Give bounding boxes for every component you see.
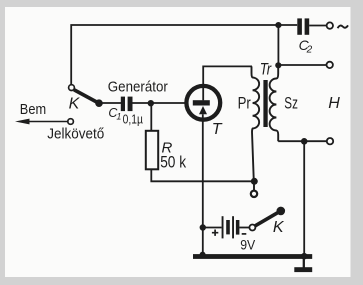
switch K (power) lever arm <box>255 211 280 226</box>
svg-text:Sz: Sz <box>284 95 298 113</box>
ground symbol bar <box>294 267 312 272</box>
terminal circle bottom <box>327 138 333 144</box>
svg-text:0,1µ: 0,1µ <box>123 113 143 127</box>
capacitor C2 left plate <box>297 18 302 34</box>
svg-text:Tr: Tr <box>260 61 273 79</box>
wire resistor bottom to bias rail <box>151 169 254 181</box>
terminal circle top (AC out) <box>327 22 333 28</box>
switch K lever arm <box>74 90 99 103</box>
battery 9V plate thin long 1 <box>222 216 224 238</box>
stub from bias node to open contact <box>253 184 255 191</box>
wire secondary net down to ground bus <box>303 141 305 254</box>
svg-text:1: 1 <box>116 111 121 121</box>
svg-text:50 k: 50 k <box>160 153 186 172</box>
Bem arrowhead <box>15 119 30 125</box>
svg-text:Generátor: Generátor <box>108 78 168 95</box>
transformer Tr secondary winding Sz <box>270 66 279 141</box>
transistor T base bar <box>193 100 210 105</box>
junction dot switch K output node <box>95 99 103 107</box>
wire to mid terminal <box>278 64 326 66</box>
Jelköveto contact circle <box>68 119 74 125</box>
wire battery right lead <box>239 227 249 229</box>
terminal circle mid <box>327 62 333 68</box>
capacitor C2 right plate <box>305 18 310 34</box>
capacitor C1 left plate <box>121 97 125 112</box>
wire base node down to resistor R <box>150 103 152 131</box>
switch K (power) lever tip blob <box>277 207 286 216</box>
transistor T emitter arrow <box>199 106 207 114</box>
svg-text:9V: 9V <box>240 238 255 253</box>
junction blob emitter-battery at bus <box>200 252 206 258</box>
wire C1 to base node <box>133 102 187 104</box>
transformer Tr core bar <box>263 80 267 127</box>
transformer Tr primary winding Pr <box>252 66 260 181</box>
wire secondary top tap vertical <box>277 25 279 65</box>
battery 9V plate thick short 1 <box>226 220 230 234</box>
capacitor C1 right plate <box>128 97 133 112</box>
junction dot battery tap on emitter line <box>200 224 206 230</box>
switch K upper contact circle <box>69 85 75 91</box>
svg-text:K: K <box>273 219 285 236</box>
wire collector from base bar up and over to primary <box>203 66 252 100</box>
battery minus sign <box>242 233 247 235</box>
svg-text:2: 2 <box>306 44 313 55</box>
label ~ (AC) <box>338 25 348 28</box>
junction dot base node <box>148 100 154 106</box>
wire emitter down to ground bus <box>202 114 204 254</box>
junction dot bias node <box>251 178 258 185</box>
transistor T circle <box>186 86 220 120</box>
svg-text:Pr: Pr <box>238 94 252 112</box>
wire top bus from switch K up-left corner to C2 <box>71 25 297 85</box>
battery plus sign <box>212 230 218 236</box>
ground bus bar <box>193 254 312 259</box>
junction dot secondary top <box>275 62 281 68</box>
wire C2 to AC terminal <box>309 25 326 27</box>
svg-text:T: T <box>212 121 223 138</box>
svg-text:H: H <box>328 95 340 112</box>
svg-text:Bem: Bem <box>20 101 46 118</box>
switch K (power) contact circle <box>249 225 255 231</box>
svg-text:K: K <box>69 96 81 113</box>
junction dot secondary bottom net <box>301 138 308 145</box>
junction blob secondary net at bus <box>301 253 308 260</box>
wire battery left lead <box>203 227 222 229</box>
open contact circle below bias node <box>251 191 257 197</box>
battery 9V plate thin long 2 <box>232 216 234 238</box>
svg-text:Jelkövető: Jelkövető <box>47 126 104 143</box>
ground stub <box>303 259 305 268</box>
wire switch K node to C1 <box>99 102 121 104</box>
wire secondary bottom to lower terminal <box>278 140 327 142</box>
junction dot top bus / secondary tap <box>275 22 281 28</box>
battery 9V plate thick short 2 <box>236 220 240 235</box>
Bem arrow line <box>25 121 68 123</box>
resistor R body <box>146 131 158 170</box>
